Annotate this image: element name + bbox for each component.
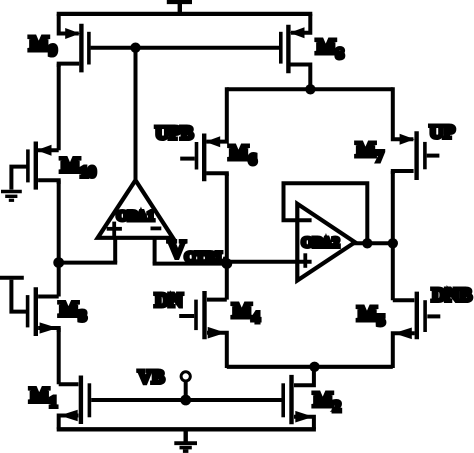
svg-text:OPA1: OPA1	[117, 208, 155, 224]
transistor M6	[180, 87, 227, 181]
svg-text:DN: DN	[155, 290, 183, 311]
svg-text:V: V	[168, 237, 186, 264]
terminal VB	[181, 372, 190, 396]
node VCTRL	[221, 258, 232, 269]
node (high impedance node / OPA1 + tap)	[53, 257, 64, 268]
svg-text:VB: VB	[138, 367, 165, 388]
wire (M6 drain down to VCTRL node)	[225, 173, 229, 263]
svg-text:M10: M10	[60, 153, 96, 181]
svg-text:OPA2: OPA2	[302, 235, 340, 251]
transistor M8	[281, 14, 311, 91]
node (OPA1 output to mirror gates)	[130, 43, 140, 53]
transistor M10	[11, 142, 58, 190]
power supply terminal (VDD)	[167, 2, 192, 16]
svg-text:CTRL: CTRL	[185, 249, 227, 265]
svg-text:M3: M3	[59, 297, 87, 325]
wire (bottom ground rail)	[57, 427, 316, 431]
transistor M3	[11, 280, 58, 336]
node VB	[180, 395, 191, 406]
node (M8 drain on mid rail)	[305, 84, 315, 94]
wire (VB bias line M1-M2 gates)	[91, 398, 283, 402]
wire (VCTRL node down to M4 drain)	[225, 264, 229, 300]
svg-text:M9: M9	[29, 32, 57, 60]
node (feedback tap)	[362, 238, 372, 248]
node (OPA2 output to M7/M5 drain)	[388, 238, 398, 248]
wire (M4/M5 sources to M2 drain)	[227, 365, 393, 369]
svg-text:M7: M7	[356, 138, 384, 166]
svg-text:UP: UP	[430, 122, 456, 143]
svg-text:DNB: DNB	[432, 285, 472, 306]
wire (OPA1 - input)	[153, 238, 157, 264]
node (M2 drain junction)	[309, 362, 319, 372]
wire (OPA1 + input to high-Z node)	[57, 261, 118, 265]
transistor M5	[393, 292, 441, 368]
wire (M3 source down to M1 drain)	[57, 328, 61, 384]
wire (VCTRL to OPA2 + input)	[227, 260, 312, 264]
transistor M7	[393, 87, 440, 180]
wire (mid rail M6-M8-M7)	[227, 87, 393, 91]
transistor M1	[59, 376, 90, 430]
wire (M10 drain down to high-Z node)	[57, 180, 61, 262]
svg-text:M1: M1	[30, 383, 58, 411]
op-amp OPA1	[98, 180, 173, 238]
wire (M9 drain down to M10 source)	[57, 64, 61, 151]
svg-text:M8: M8	[316, 34, 344, 62]
ground (bottom rail)	[174, 429, 197, 451]
wire (OPA1 + input)	[113, 238, 117, 263]
svg-text:M4: M4	[232, 298, 260, 326]
wire (current mirror gate line M9-M8)	[91, 46, 281, 50]
wire (OPA2 output)	[353, 241, 393, 245]
svg-text:M6: M6	[229, 140, 257, 168]
wire (OPA2 feedback loop)	[284, 183, 368, 243]
transistor M9	[59, 14, 89, 73]
transistor M2	[283, 364, 314, 429]
bias terminal (M3 gate)	[0, 276, 24, 280]
svg-text:UPB: UPB	[155, 123, 193, 144]
svg-text:M5: M5	[357, 301, 385, 329]
ground (M10 gate)	[1, 192, 22, 201]
transistor M4	[179, 291, 227, 368]
wire (top VDD rail)	[57, 12, 313, 16]
op-amp OPA2	[284, 204, 356, 281]
svg-text:M2: M2	[313, 387, 341, 415]
wire (OPA1 - input to VCTRL node)	[153, 262, 227, 266]
wire (M7 drain to M5 drain)	[391, 171, 395, 300]
wire (node down to M3 drain)	[57, 263, 61, 297]
wire (OPA1 output up to gate line)	[134, 48, 138, 181]
